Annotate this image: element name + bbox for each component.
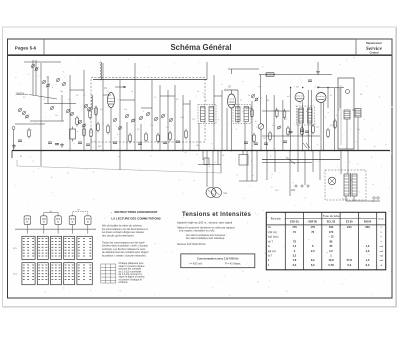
wire lower hook bbox=[16, 160, 18, 166]
svg-text:C7: C7 bbox=[107, 91, 109, 93]
IF transformer T3 bbox=[297, 106, 315, 125]
trimmer capacitor CV9 bbox=[113, 118, 117, 122]
svg-text:(les valeurs soulignées sont m: (les valeurs soulignées sont mesurées ; bbox=[186, 234, 227, 237]
junction bbox=[151, 150, 153, 152]
svg-text:b: b bbox=[52, 87, 53, 89]
wire V2 cap line bbox=[224, 89, 238, 91]
tube V2 ECH81 bbox=[228, 94, 236, 108]
wire d6 bbox=[217, 151, 219, 165]
trimmer capacitor CT10 bbox=[66, 109, 70, 113]
trimmer capacitor CV6 bbox=[161, 114, 165, 118]
svg-text:ECL 82: ECL 82 bbox=[327, 221, 336, 224]
wire d13 bbox=[289, 151, 291, 197]
combinator table GO-5 bbox=[77, 263, 92, 285]
wire v24 bbox=[221, 90, 223, 151]
ground bbox=[12, 144, 16, 148]
voltage selector bbox=[295, 185, 309, 187]
svg-text:EZ 80: EZ 80 bbox=[346, 221, 353, 224]
combinator table PO-3 bbox=[51, 236, 62, 259]
svg-text:C9: C9 bbox=[154, 97, 156, 99]
svg-text:74: 74 bbox=[293, 230, 296, 234]
svg-text:50: 50 bbox=[306, 111, 308, 113]
svg-text:ECH 81: ECH 81 bbox=[290, 221, 299, 224]
svg-text:10,8: 10,8 bbox=[328, 258, 334, 262]
wire v12 bbox=[126, 122, 128, 151]
wire d2 bbox=[119, 151, 121, 171]
resistor R11 bbox=[145, 132, 148, 143]
switch S2 bbox=[303, 143, 307, 148]
combinator table PO-1 bbox=[22, 236, 35, 259]
trimmer capacitor CT13 bbox=[87, 107, 91, 111]
wire v35 bbox=[290, 88, 292, 151]
svg-text:Pages 5-6: Pages 5-6 bbox=[15, 46, 37, 51]
svg-text:Département: Département bbox=[366, 41, 382, 45]
ENDN bbox=[12, 60, 390, 201]
resistor R25 bbox=[287, 126, 290, 137]
inductor L2 bbox=[91, 95, 93, 110]
wire mains lead 1 bbox=[345, 196, 347, 201]
svg-text:220: 220 bbox=[291, 189, 296, 192]
resistor R40 bbox=[83, 127, 86, 138]
svg-text:G.O.: G.O. bbox=[13, 274, 18, 276]
svg-text:k: k bbox=[325, 117, 326, 119]
trimmer capacitor CV4 bbox=[146, 112, 150, 116]
wire v17 bbox=[167, 90, 169, 151]
svg-text:160: 160 bbox=[329, 225, 334, 229]
resistor R1 bbox=[28, 128, 31, 139]
junction bbox=[290, 150, 292, 152]
mains switch S1 bbox=[286, 157, 295, 164]
capacitor C12 bbox=[163, 142, 167, 143]
junction bbox=[69, 150, 71, 152]
svg-text:4,6: 4,6 bbox=[366, 249, 370, 253]
combinator table GO-3 bbox=[51, 263, 62, 285]
junction bbox=[119, 150, 121, 152]
wire net d bbox=[70, 89, 84, 91]
link bracket B bbox=[72, 211, 87, 215]
wire v14 bbox=[140, 124, 142, 151]
svg-text:− 12: − 12 bbox=[328, 235, 334, 239]
svg-text:Central: Central bbox=[370, 51, 379, 55]
junction bbox=[213, 150, 215, 152]
svg-text:0,3: 0,3 bbox=[293, 263, 297, 267]
svg-text:Schéma Général: Schéma Général bbox=[170, 43, 231, 52]
RF choke CH1 bbox=[266, 73, 274, 77]
wire socket drop bbox=[87, 229, 89, 233]
svg-text:Type du tube: Type du tube bbox=[323, 214, 340, 218]
wire v32 bbox=[265, 95, 267, 151]
wire d17 bbox=[319, 151, 321, 181]
svg-text:57,8: 57,8 bbox=[347, 258, 353, 262]
wire v33 bbox=[273, 95, 275, 151]
junction bbox=[251, 150, 253, 152]
wire v31 bbox=[260, 130, 262, 151]
svg-text:Secteur 110 Volts 50 Hz.: Secteur 110 Volts 50 Hz. bbox=[177, 242, 207, 246]
wire v36 bbox=[297, 108, 299, 151]
trimmer capacitor CT2 bbox=[34, 67, 38, 71]
wire net k bbox=[245, 107, 252, 109]
svg-text:0,5M: 0,5M bbox=[180, 117, 184, 119]
output transformer T4 secondary bbox=[355, 109, 361, 118]
combinator table GO-2 bbox=[37, 263, 48, 285]
wire d7 bbox=[242, 151, 244, 155]
inductor L1 bbox=[100, 62, 102, 80]
svg-text:0,1: 0,1 bbox=[336, 115, 339, 117]
wire d4 bbox=[206, 151, 208, 188]
wire tuning top bbox=[93, 79, 207, 81]
value label underline bbox=[16, 94, 29, 96]
svg-text:1n: 1n bbox=[211, 113, 213, 115]
phono motor M1 bbox=[206, 188, 222, 198]
capacitor C13 bbox=[176, 141, 180, 142]
wire v43 bbox=[327, 88, 329, 108]
wire T4 sec lead bbox=[357, 117, 359, 151]
svg-text:25p: 25p bbox=[124, 109, 127, 111]
svg-text:0,1: 0,1 bbox=[255, 121, 258, 123]
potentiometer P1 bbox=[258, 124, 264, 130]
wire v6 bbox=[69, 75, 71, 151]
svg-text:200: 200 bbox=[365, 225, 370, 229]
wire d12 bbox=[274, 151, 276, 173]
antenna terminal bbox=[12, 127, 15, 130]
wire socket drop bbox=[43, 229, 45, 233]
svg-text:c: c bbox=[92, 117, 93, 119]
trimmer capacitor CT11 bbox=[70, 112, 74, 116]
svg-text:73: 73 bbox=[293, 239, 296, 243]
wire net f bbox=[120, 99, 135, 101]
END bbox=[101, 210, 161, 284]
wire v34 bbox=[282, 100, 284, 151]
svg-text:LA LECTURE DES COMMUTATIONS: LA LECTURE DES COMMUTATIONS bbox=[111, 217, 160, 221]
capacitor C26 bbox=[305, 131, 309, 132]
resistor R2 bbox=[89, 109, 92, 120]
svg-text:EM 84: EM 84 bbox=[364, 221, 372, 224]
junction bbox=[353, 150, 355, 152]
svg-text:50k: 50k bbox=[272, 125, 275, 127]
svg-text:R14: R14 bbox=[307, 135, 310, 137]
junction bbox=[266, 74, 268, 76]
wire v45 bbox=[339, 88, 341, 108]
trimmer capacitor CT6 bbox=[62, 82, 66, 86]
tube socket EZ 80 bbox=[69, 216, 75, 229]
junction bbox=[260, 150, 262, 152]
junction bbox=[334, 150, 336, 152]
wire v26 bbox=[231, 108, 233, 151]
junction bbox=[317, 87, 319, 89]
svg-text:1,2: 1,2 bbox=[329, 249, 333, 253]
trimmer capacitor CV5 bbox=[154, 117, 158, 121]
junction bbox=[102, 150, 104, 152]
wire socket drop bbox=[71, 229, 73, 233]
tube socket EM 84 bbox=[85, 216, 91, 229]
wire v28 bbox=[244, 122, 246, 151]
wire V2 top cap bbox=[231, 90, 233, 94]
combinator table PO-5 bbox=[77, 236, 92, 259]
wire d11 bbox=[266, 151, 268, 181]
junction bbox=[345, 150, 347, 152]
svg-text:76: 76 bbox=[311, 230, 314, 234]
wire d19 bbox=[347, 151, 349, 175]
resistor R33 bbox=[327, 128, 330, 139]
wire v4 bbox=[47, 76, 49, 104]
link bracket A bbox=[44, 213, 58, 216]
wire V2 anode feed bbox=[228, 68, 259, 70]
trimmer capacitor CT9 bbox=[25, 114, 29, 118]
wire pu net bbox=[198, 164, 221, 166]
junction bbox=[323, 150, 325, 152]
svg-text:Appareil réglé sur 200 m., sec: Appareil réglé sur 200 m., secteur, sans… bbox=[177, 221, 233, 225]
svg-text:35: 35 bbox=[329, 244, 332, 248]
svg-text:a: a bbox=[28, 74, 29, 76]
wire net j bbox=[214, 95, 222, 97]
capacitor C30 bbox=[308, 80, 312, 81]
power transformer T5 bbox=[344, 173, 357, 197]
trimmer capacitor CV2 bbox=[131, 118, 135, 122]
junction bbox=[40, 150, 42, 152]
wire v38 bbox=[307, 90, 309, 151]
wire v10 bbox=[110, 108, 112, 151]
wire mains 2 bbox=[262, 162, 312, 164]
capacitor C11 bbox=[138, 143, 142, 144]
svg-text:R16: R16 bbox=[330, 125, 333, 127]
svg-text:mA: mA bbox=[380, 245, 384, 248]
header band bbox=[8, 54, 393, 56]
junction bbox=[274, 150, 276, 152]
resistor R4 bbox=[76, 116, 79, 127]
wire V2 anode bbox=[231, 69, 233, 74]
fuse F1 bbox=[239, 155, 248, 166]
wire d18 bbox=[340, 151, 342, 175]
svg-text:Tensions et Intensités: Tensions et Intensités bbox=[182, 212, 252, 218]
END bbox=[177, 212, 255, 268]
wire v7 bbox=[83, 70, 85, 151]
trimmer capacitor CT16 bbox=[82, 123, 86, 127]
wire d1 bbox=[40, 151, 42, 167]
svg-text:T3: T3 bbox=[299, 103, 301, 105]
svg-text:6,3: 6,3 bbox=[366, 263, 370, 267]
switch S3 bbox=[306, 143, 310, 148]
wire mains 1 bbox=[262, 159, 340, 161]
svg-text:g: g bbox=[218, 119, 219, 121]
svg-text:EBF 80: EBF 80 bbox=[308, 221, 317, 224]
svg-text:6V3: 6V3 bbox=[98, 146, 101, 148]
capacitor C23 bbox=[283, 141, 287, 142]
wire v40 bbox=[317, 62, 319, 70]
wire mains lead 2 bbox=[353, 196, 355, 201]
resistor R5 bbox=[70, 127, 76, 142]
svg-text:2,3: 2,3 bbox=[311, 249, 315, 253]
svg-text:mA: mA bbox=[380, 259, 384, 262]
wire net h bbox=[160, 95, 175, 97]
wire d8 bbox=[246, 151, 248, 182]
page frame bbox=[8, 39, 393, 298]
capacitor C10 bbox=[113, 142, 117, 143]
ground bbox=[316, 70, 320, 74]
svg-text:R9: R9 bbox=[137, 129, 139, 131]
svg-text:50p: 50p bbox=[60, 91, 63, 93]
junction bbox=[273, 74, 275, 76]
capacitor C1 bbox=[18, 140, 22, 141]
svg-text:e: e bbox=[143, 111, 144, 113]
combinator table PO-4 bbox=[64, 236, 75, 259]
trimmer capacitor CV3 bbox=[139, 116, 143, 120]
resistor R15 bbox=[97, 122, 100, 133]
svg-text:5p: 5p bbox=[197, 91, 199, 93]
connector block bbox=[204, 158, 209, 165]
resistor R21 bbox=[253, 133, 256, 144]
tube V1 triode bbox=[108, 93, 115, 108]
resistor R23 bbox=[276, 108, 279, 119]
wire bus end drop bbox=[11, 151, 13, 159]
wire v37 bbox=[302, 102, 304, 151]
resistor R3 bbox=[95, 106, 98, 117]
trimmer capacitor CT7 bbox=[18, 108, 22, 112]
wire d14 bbox=[297, 151, 299, 173]
svg-text:g2: g2 bbox=[330, 95, 332, 97]
signal arrow bbox=[115, 86, 126, 88]
wire v41 bbox=[320, 103, 322, 151]
svg-text:2n: 2n bbox=[248, 95, 250, 97]
wire socket rail bbox=[15, 228, 96, 230]
trimmer capacitor CT5 bbox=[56, 78, 60, 82]
wire v29 bbox=[251, 101, 253, 151]
tuning gang enclosure bbox=[91, 78, 205, 143]
wire v20 bbox=[189, 100, 191, 151]
wire v8 bbox=[95, 106, 97, 151]
wire d16 bbox=[312, 151, 314, 173]
wire net b bbox=[44, 103, 76, 105]
capacitor C3 bbox=[55, 144, 59, 145]
wire lower return end bbox=[220, 151, 222, 174]
output transformer T4 primary bbox=[344, 110, 350, 119]
svg-text:170: 170 bbox=[292, 225, 297, 229]
svg-text:7,4: 7,4 bbox=[293, 244, 297, 248]
svg-text:0,78: 0,78 bbox=[328, 263, 334, 267]
wire v44 bbox=[334, 88, 336, 151]
junction bbox=[302, 87, 304, 89]
svg-text:Électrode: Électrode bbox=[271, 218, 282, 221]
svg-text:1,2: 1,2 bbox=[366, 244, 370, 248]
wire net i bbox=[183, 103, 190, 105]
wire socket drop bbox=[57, 229, 59, 233]
loudspeaker LS1 bbox=[338, 78, 354, 149]
wire to plug bbox=[346, 200, 374, 202]
svg-text:h: h bbox=[236, 129, 237, 131]
resistor R14 bbox=[185, 129, 188, 140]
svg-text:(les valeurs (italiques) sont: (les valeurs (italiques) sont calculées)… bbox=[186, 237, 225, 240]
wire v15 bbox=[151, 80, 153, 151]
svg-text:170: 170 bbox=[329, 230, 334, 234]
power supply enclosure bbox=[325, 170, 366, 200]
svg-text:Vg1 (osc): Vg1 (osc) bbox=[268, 236, 279, 239]
junction bbox=[231, 150, 233, 152]
combinator table PO-2 bbox=[37, 236, 48, 259]
svg-text:15p: 15p bbox=[100, 109, 103, 111]
svg-text:à la masse; intensités en mA).: à la masse; intensités en mA). bbox=[179, 229, 215, 233]
svg-text:mA: mA bbox=[380, 250, 384, 253]
wire trap lead bbox=[29, 95, 57, 100]
svg-text:244: 244 bbox=[347, 225, 352, 229]
wire socket drop bbox=[26, 229, 28, 233]
ground bbox=[60, 143, 64, 147]
junction bbox=[290, 87, 292, 89]
trimmer capacitor CT15 bbox=[78, 120, 82, 124]
dial lamp LP1 bbox=[328, 177, 336, 185]
svg-text:6,3: 6,3 bbox=[311, 263, 315, 267]
capacitor C25 bbox=[300, 130, 304, 131]
tube V3 EBF80 bbox=[295, 93, 304, 102]
wire d10 bbox=[256, 151, 258, 182]
capacitor C20 bbox=[244, 142, 248, 143]
tube socket ECL 82 bbox=[55, 216, 61, 229]
END bbox=[13, 210, 96, 285]
wire v39 bbox=[311, 90, 313, 151]
svg-text:T2: T2 bbox=[240, 100, 242, 102]
wire heater net bbox=[239, 180, 257, 182]
trimmer capacitor CT14 bbox=[50, 106, 54, 110]
svg-text:a1: a1 bbox=[131, 91, 133, 93]
tube socket EBF 80 bbox=[41, 216, 47, 229]
capacitor C21 bbox=[254, 143, 258, 144]
capacitor C2 bbox=[48, 142, 52, 143]
wire d15 bbox=[304, 151, 306, 186]
wire d3 bbox=[202, 151, 204, 161]
junction bbox=[182, 150, 184, 152]
tube socket ECH 81 bbox=[24, 216, 30, 229]
resistor R13 bbox=[169, 131, 172, 142]
capacitor C41 bbox=[86, 144, 90, 145]
resistor R22 bbox=[269, 131, 272, 142]
resistor R30 bbox=[301, 126, 304, 137]
wire v2 bbox=[35, 60, 37, 95]
svg-text:P = 41 Watts.: P = 41 Watts. bbox=[225, 262, 241, 266]
junction bbox=[311, 150, 313, 152]
svg-text:C27: C27 bbox=[316, 127, 319, 129]
wire AF branch bbox=[262, 135, 320, 137]
wire net c bbox=[15, 123, 45, 125]
resistor R32 bbox=[334, 119, 337, 130]
svg-text:5k: 5k bbox=[338, 109, 340, 111]
wire net e bbox=[103, 94, 111, 96]
wire T4 link bbox=[352, 109, 355, 111]
svg-text:7,8: 7,8 bbox=[293, 258, 297, 262]
resistor R41 bbox=[107, 124, 110, 135]
svg-text:80: 80 bbox=[329, 239, 332, 243]
trimmer capacitor CT20 bbox=[251, 94, 255, 98]
svg-text:d: d bbox=[117, 134, 118, 136]
resistor R10 bbox=[129, 133, 132, 144]
resistor R20 bbox=[251, 108, 254, 119]
capacitor C24 bbox=[289, 132, 293, 133]
wire v23 bbox=[213, 75, 215, 151]
svg-text:0,3: 0,3 bbox=[347, 263, 351, 267]
trimmer capacitor CT8 bbox=[22, 111, 26, 115]
wire v42 bbox=[323, 103, 325, 151]
wire HT top rail bbox=[259, 74, 332, 76]
svg-text:T1: T1 bbox=[205, 100, 207, 102]
svg-text:INSTRUCTIONS CONCERNANT: INSTRUCTIONS CONCERNANT bbox=[114, 210, 157, 214]
combinator table GO-1 bbox=[22, 263, 35, 285]
resistor R24 bbox=[283, 109, 286, 120]
svg-text:Consommation avec 110 V/50 H: Consommation avec 110 V/50 Hz bbox=[197, 256, 239, 260]
svg-text:I = 420 mA.: I = 420 mA. bbox=[189, 262, 203, 266]
svg-text:140: 140 bbox=[196, 145, 199, 147]
svg-text:la position « travail » (touch: la position « travail » (touche enfoncée… bbox=[102, 254, 147, 257]
junction bbox=[302, 150, 304, 152]
svg-text:50µ: 50µ bbox=[357, 129, 360, 131]
svg-text:Ia T: Ia T bbox=[268, 255, 273, 258]
wire v1 bbox=[32, 60, 34, 95]
